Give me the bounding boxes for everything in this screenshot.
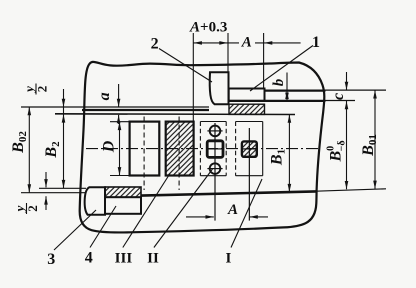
svg-text:II: II: [147, 251, 159, 267]
svg-text:a: a: [96, 92, 113, 100]
svg-text:A+0.3: A+0.3: [189, 20, 227, 36]
svg-text:2: 2: [35, 86, 50, 93]
svg-text:4: 4: [85, 250, 93, 267]
svg-text:c: c: [330, 93, 347, 100]
svg-text:A: A: [227, 202, 238, 218]
svg-text:2: 2: [25, 205, 40, 212]
svg-text:III: III: [115, 251, 133, 267]
svg-text:3: 3: [47, 251, 55, 268]
svg-text:1: 1: [312, 34, 320, 51]
svg-text:A: A: [241, 34, 252, 50]
svg-text:D: D: [101, 140, 118, 153]
svg-text:I: I: [225, 251, 231, 267]
svg-text:b: b: [271, 78, 287, 86]
svg-text:2: 2: [151, 36, 159, 53]
